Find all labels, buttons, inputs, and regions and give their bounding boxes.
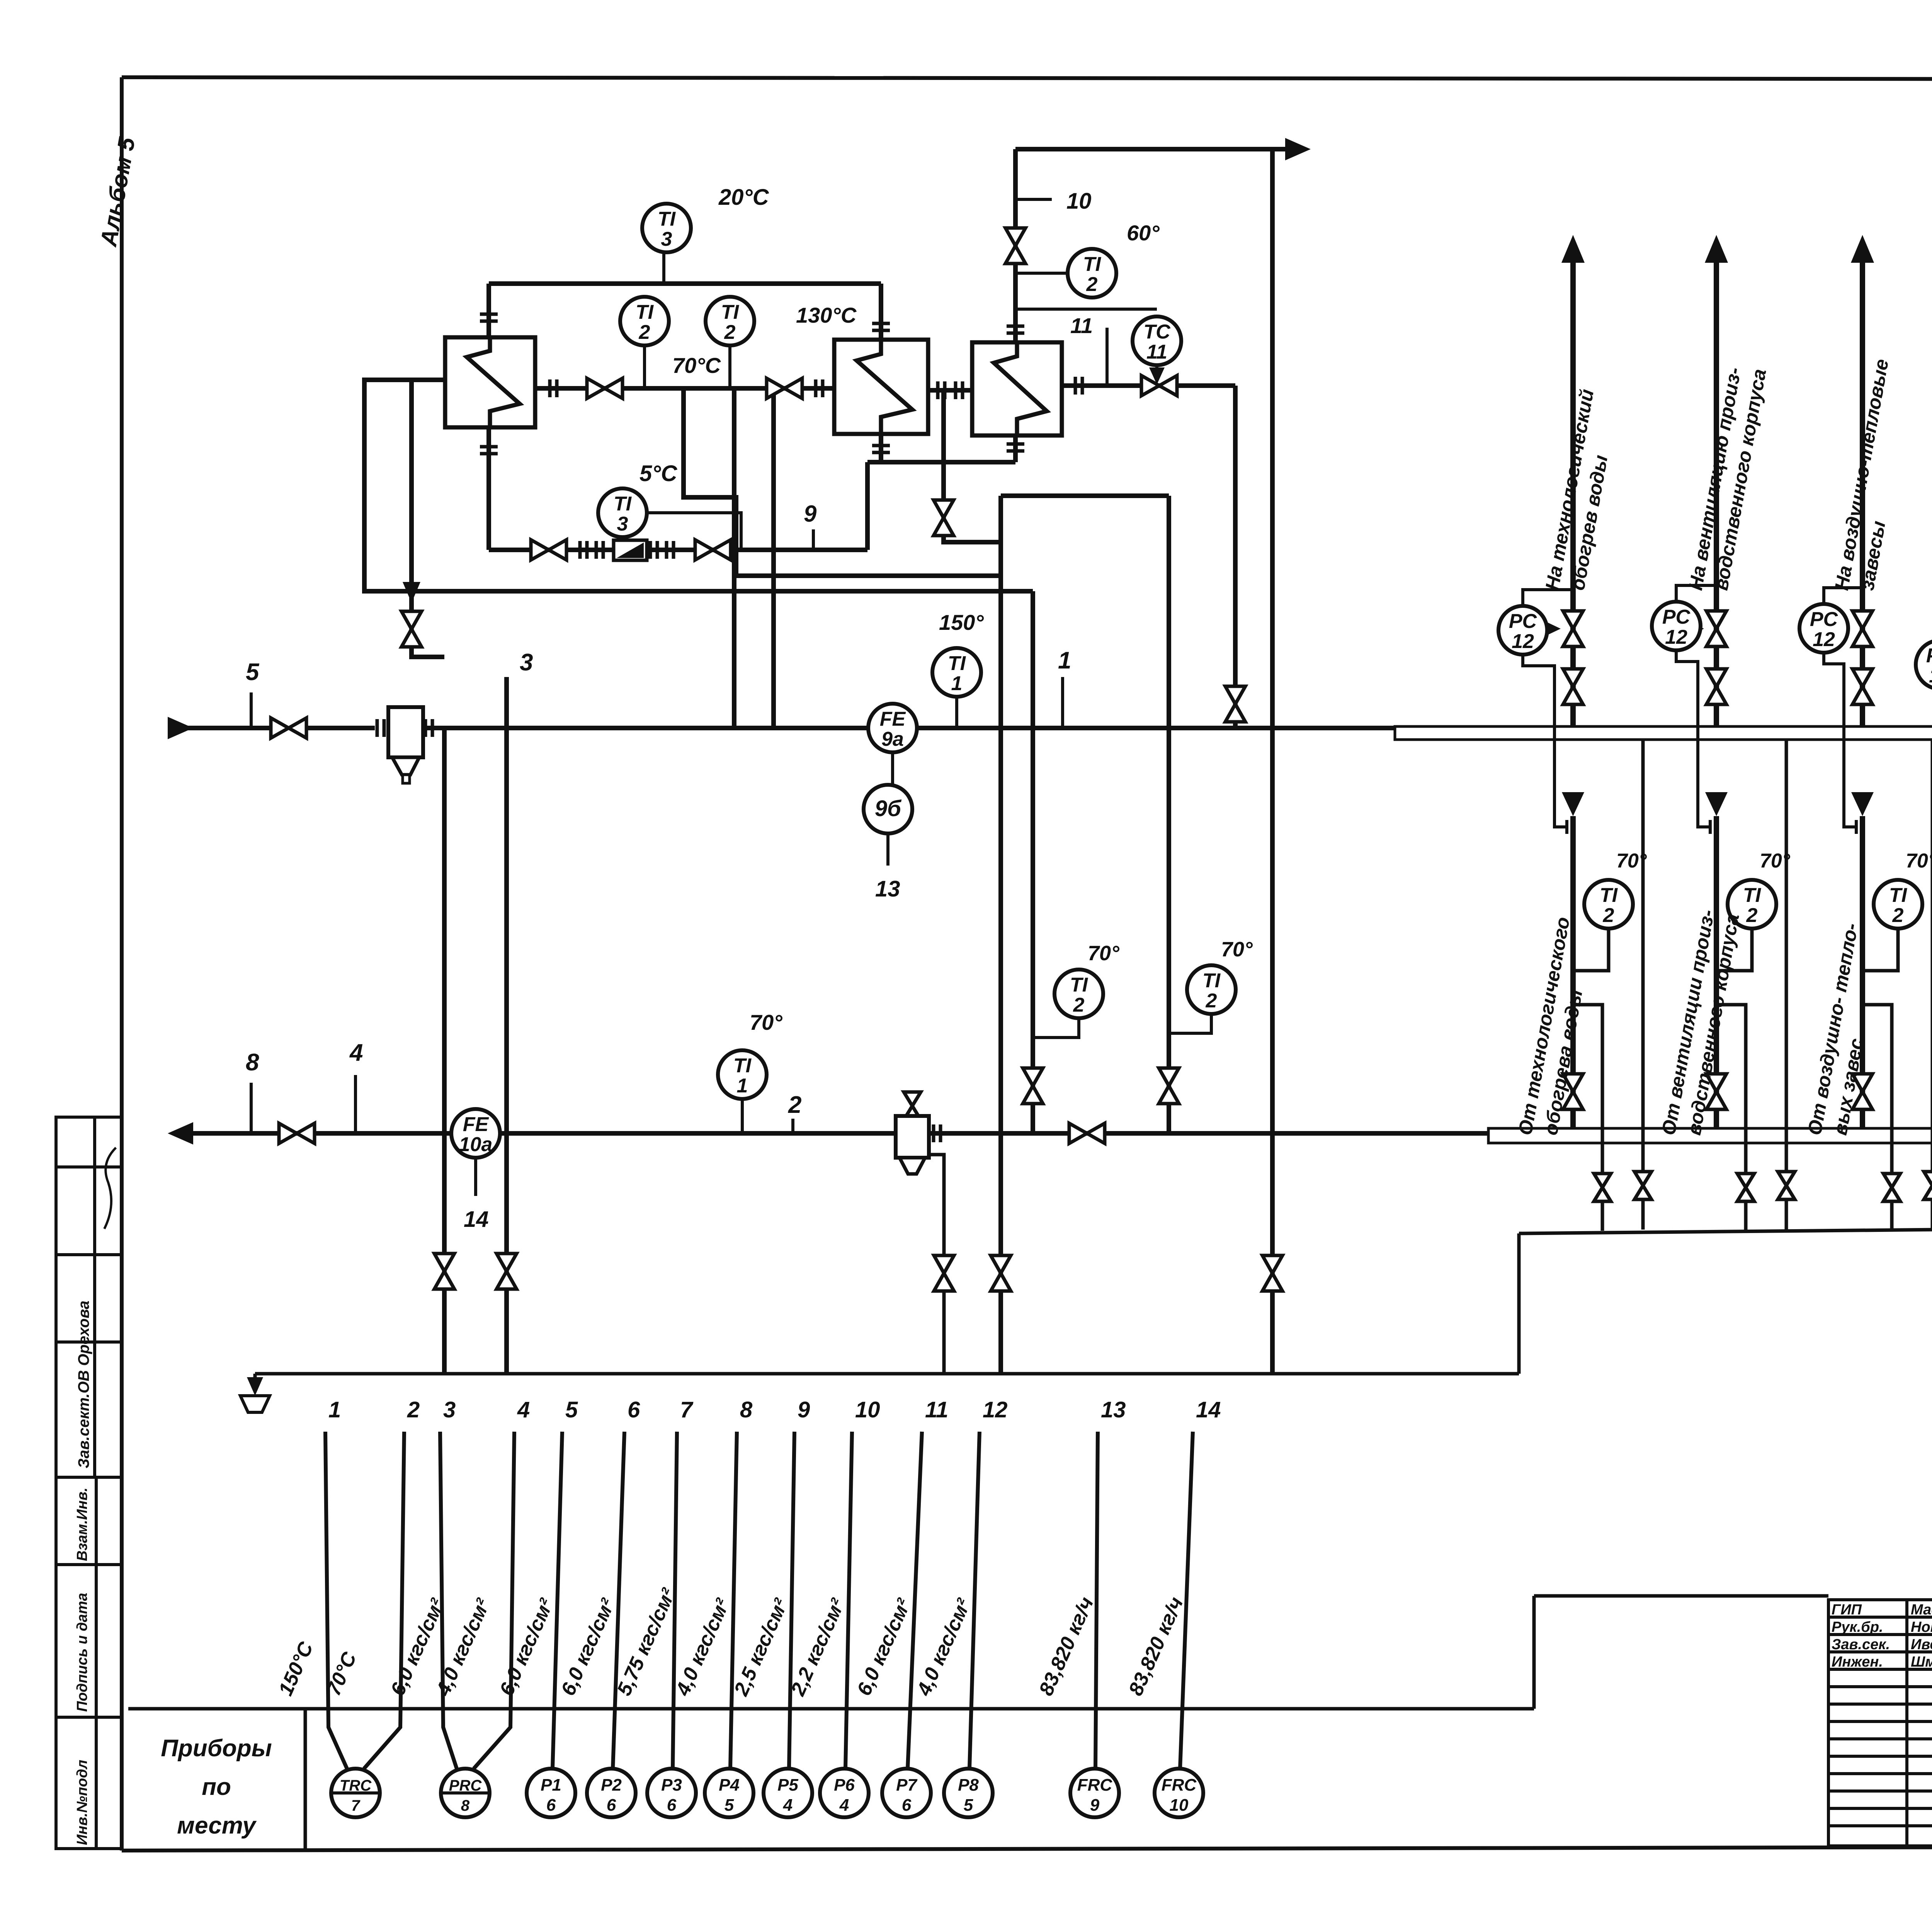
return riser load 3 [1851,792,1874,816]
svg-text:Инжен.: Инжен. [1832,1654,1883,1670]
wire drain v1311 (node 3) [504,677,509,1374]
supply riser load 1 [1570,253,1576,726]
wire [306,726,375,730]
svg-text:Подпись и дата: Подпись и дата [74,1593,90,1712]
svg-text:6: 6 [628,1397,640,1422]
valve on v3293 [1262,1255,1282,1291]
node 9 tick [812,529,815,550]
wire return line [193,1131,1488,1136]
valve on v1311 [497,1254,517,1289]
svg-text:2: 2 [1892,904,1904,927]
wire long vertical v3293 [1270,151,1275,1374]
svg-text:2: 2 [407,1397,420,1422]
instrument FRC10 [1155,1769,1203,1817]
controller PC12 load 1 [1498,606,1547,655]
supply header (thick) [1395,726,1932,740]
9b stem [886,833,889,866]
valve on bypass [531,540,566,560]
svg-text:9а: 9а [881,728,904,750]
return riser drain load 2 [1716,1005,1746,1231]
instrument Р26 [587,1769,636,1817]
wire hot outlet 60deg [1015,147,1295,151]
PC12 impulse hook load 3 [1824,588,1860,604]
svg-text:ТRC: ТRC [340,1777,372,1794]
return riser drain load 3 [1862,1005,1892,1231]
supply riser drain load 1 [1641,740,1645,1230]
valve on v1150 [434,1254,454,1289]
svg-text:6: 6 [667,1796,677,1815]
svg-text:70°: 70° [1906,850,1932,872]
svg-text:12: 12 [1512,630,1534,653]
svg-text:Шмидт.: Шмидт. [1911,1654,1932,1670]
svg-text:2: 2 [1073,994,1085,1016]
supply riser load 2 [1714,253,1719,726]
left stamp table upper [56,1117,122,1477]
valve after HX1 [587,378,622,398]
instrument strip frame [128,1707,1534,1711]
valve on return outlet [279,1123,315,1143]
node 1 tick [1061,677,1064,728]
svg-text:1: 1 [1058,647,1071,674]
svg-text:ТI: ТI [948,652,966,675]
svg-text:Зав.сек.: Зав.сек. [1832,1636,1890,1653]
valve on v2590 [991,1255,1011,1291]
border frame [122,77,1932,80]
svg-text:14: 14 [1196,1397,1221,1422]
manual valve on supply riser load 1 [1563,669,1583,704]
signature table [1828,1600,1932,1846]
wire HX1 return [364,380,1033,591]
valve before HX2 [767,378,802,398]
wire supply line to header [423,726,1395,730]
cold water top line 20deg [489,281,881,286]
thermometer TI1 (150deg supply) [932,648,981,697]
TI2 stem [728,345,731,388]
thermometer TI2 on HX1 return [1054,970,1103,1018]
wire loop down to return [1167,496,1171,1133]
line to TC11 [1015,308,1157,311]
svg-text:Р7: Р7 [896,1776,918,1795]
svg-text:FE: FE [463,1113,489,1136]
svg-text:1: 1 [737,1075,748,1097]
thermometer TI2 (60deg) [1068,249,1116,298]
wire loop [1001,493,1169,498]
wire drain manifold step [1517,1233,1521,1374]
valve on HX2 drain [934,500,954,536]
svg-text:Р6: Р6 [834,1776,855,1795]
PC12 impulse hook load 2 [1676,585,1714,602]
instrument Р36 [647,1769,696,1817]
FE9a link [891,752,894,785]
svg-text:2: 2 [788,1092,801,1118]
valve on HX1 drain [401,611,422,647]
svg-text:ТI: ТI [636,301,654,323]
svg-text:ГИП: ГИП [1832,1602,1862,1618]
svg-text:2: 2 [1746,904,1758,927]
svg-text:20°C: 20°C [718,185,769,210]
svg-text:11: 11 [1146,341,1167,363]
svg-text:60°: 60° [1127,221,1160,245]
valve on HX3 outlet riser [1005,228,1026,264]
svg-text:10: 10 [1066,189,1092,214]
thermometer TI2 load 1 [1584,880,1633,929]
instrument line 3 [440,1432,457,1769]
TI2 stem [1015,272,1068,275]
svg-text:Приборы: Приборы [161,1735,272,1762]
svg-text:ТI: ТI [658,208,676,230]
svg-text:Р2: Р2 [601,1776,622,1795]
svg-text:8: 8 [246,1049,259,1076]
svg-text:9б: 9б [875,796,902,821]
node 10 tick [1015,198,1052,201]
svg-text:8: 8 [461,1797,470,1814]
svg-text:Р1: Р1 [541,1776,561,1795]
return riser load 1 [1562,792,1584,816]
flange [377,719,384,737]
wire HX1 return drop [1031,591,1035,1133]
svg-text:FE: FE [880,708,906,730]
svg-text:Р3: Р3 [661,1776,682,1795]
instrument Р85 [944,1769,993,1817]
instrument Р64 [820,1769,869,1817]
signature squiggle [104,1148,116,1229]
HX1 bottom riser to bypass [486,427,491,550]
svg-text:РС: РС [1926,645,1932,667]
wire primary feed risers from supply line [732,388,736,728]
control valve TC11 [1141,376,1177,396]
valve above supply line [1225,686,1245,722]
heat exchanger 3 [972,342,1062,435]
node 8 tick [250,1083,253,1133]
svg-text:5°C: 5°C [639,461,677,486]
TC11 arrow to control valve [1155,365,1158,377]
drain funnel [253,1374,257,1385]
instrument line 9 [789,1432,794,1769]
svg-text:70°: 70° [750,1010,782,1034]
svg-text:3: 3 [443,1397,456,1422]
HX3 secondary outlet with control valve [1062,383,1235,388]
thermometer TI2 load 2 [1728,880,1776,929]
TI1 stem [741,1099,744,1133]
valve on strainer2 drain [934,1255,954,1291]
svg-text:9: 9 [798,1397,810,1422]
instrument line 12 [969,1432,980,1769]
svg-text:12: 12 [1929,665,1932,687]
supply riser drain load 3 [1931,740,1932,1230]
node 2 tick [791,1119,794,1133]
svg-text:Р5: Р5 [777,1776,798,1795]
svg-text:Взам.Инв.: Взам.Инв. [74,1488,90,1561]
svg-text:Р8: Р8 [958,1776,979,1795]
svg-text:70°: 70° [1088,942,1119,965]
instrument Р45 [705,1769,753,1817]
wire drain manifold (funnel) [255,1372,1519,1376]
svg-text:ТI: ТI [721,301,740,323]
flow element FE10a [451,1109,500,1158]
instrument line 6 [613,1432,624,1769]
svg-text:Инв.№подл: Инв.№подл [74,1760,90,1845]
PC12 impulse hook load 1 [1523,590,1571,606]
valve on return line [1069,1123,1105,1143]
svg-text:4: 4 [839,1796,849,1815]
TI2 stem [1169,1014,1211,1033]
svg-text:2: 2 [1086,273,1098,296]
svg-text:10а: 10а [459,1133,493,1156]
svg-text:130°C: 130°C [796,303,857,327]
instrument line 13 [1095,1432,1098,1769]
TI1 stem [955,697,958,728]
cold feed line to HX2/HX3 bottoms [867,460,1015,464]
HX2 top riser [879,284,883,340]
svg-text:1: 1 [951,672,963,695]
manual valve on supply riser load 3 [1852,669,1872,704]
instrument line 7 [673,1432,677,1769]
heat exchanger 1 [445,337,535,427]
instrument line 11 [908,1432,922,1769]
node 11 tick [1105,328,1109,384]
thermometer TI3 (20degC) [642,204,691,252]
svg-text:11: 11 [1070,313,1093,338]
svg-text:ТI: ТI [1889,884,1908,907]
svg-text:12: 12 [1665,626,1687,648]
supply inlet arrow (node 5) [168,717,193,739]
svg-text:9: 9 [804,501,817,527]
TI2 stem [643,345,646,388]
wire HX2 drain [944,390,1001,542]
flange [934,1124,940,1142]
HX2-HX3 link [928,388,972,393]
svg-text:ТI: ТI [1070,974,1088,996]
svg-text:5: 5 [246,659,260,685]
node 4 tick [354,1075,357,1133]
svg-text:по: по [202,1774,231,1800]
svg-text:ТI: ТI [1202,970,1221,992]
svg-text:3: 3 [661,228,672,250]
svg-text:Номин: Номин [1911,1619,1932,1635]
wire drain v2590 [998,496,1003,1374]
svg-text:70°: 70° [1221,938,1253,961]
wire riser from bypass [865,462,870,550]
valve on HX1 return drop [1023,1068,1043,1104]
flange [425,719,432,737]
controller PRC8 [441,1769,490,1817]
instrument line 14 [1180,1432,1193,1769]
svg-text:Р4: Р4 [719,1776,740,1795]
instrument line 5 [553,1432,562,1769]
svg-text:3: 3 [617,513,628,535]
instrument line 8 [730,1432,737,1769]
svg-text:2: 2 [639,321,650,344]
thermometer TI2 before HX2 [706,297,754,345]
control valve load 3 [1852,611,1872,646]
svg-text:ТI: ТI [733,1055,752,1077]
svg-text:11: 11 [925,1397,948,1422]
valve on loop drop [1159,1068,1179,1104]
check valve [614,540,647,560]
svg-text:5: 5 [724,1796,734,1815]
return riser load 2 [1705,792,1728,816]
HX1 outlet pipe 70degC [535,386,834,391]
valve on bypass 2 [695,540,731,560]
svg-text:FRC: FRC [1077,1776,1113,1795]
svg-text:ТI: ТI [614,493,632,515]
svg-text:4: 4 [783,1796,793,1815]
svg-text:4: 4 [517,1397,530,1422]
svg-text:месту: месту [177,1812,257,1839]
vent valve on return strainer [904,1092,921,1120]
svg-text:7: 7 [351,1797,361,1814]
left stamp table lower [56,1477,122,1849]
svg-text:8: 8 [740,1397,753,1422]
wire HX1 drain [412,380,444,657]
svg-text:ТI: ТI [1743,884,1762,907]
svg-text:Зав.сект.ОВ Орехова: Зав.сект.ОВ Орехова [75,1301,92,1468]
return riser drain load 1 [1573,1005,1602,1231]
svg-text:РС: РС [1810,608,1838,631]
control valve load 1 [1563,611,1583,646]
strainer on supply line [388,707,423,757]
svg-text:13: 13 [1101,1397,1126,1422]
svg-text:РС: РС [1662,606,1691,628]
supply riser drain load 2 [1785,740,1788,1230]
heat exchanger 2 [834,340,928,434]
instrument 9b [864,785,912,833]
svg-text:12: 12 [983,1397,1008,1422]
svg-text:2: 2 [1603,904,1614,927]
thermometer TI1 (70deg return) [718,1050,767,1099]
thermometer TI2 after HX1 [620,297,669,345]
svg-text:12: 12 [1813,628,1835,651]
controller PC12 load 4 [1916,640,1932,689]
svg-text:2: 2 [724,321,736,344]
thermometer TI2 load 3 [1874,880,1922,929]
wire drain v1150 [442,728,447,1374]
svg-text:5: 5 [964,1796,973,1815]
svg-text:9: 9 [1090,1796,1100,1815]
wire strainer2 drain [929,1155,944,1374]
svg-text:13: 13 [875,876,900,902]
FE10a stem [474,1158,477,1196]
svg-text:4: 4 [349,1039,363,1066]
svg-text:6: 6 [607,1796,616,1815]
controller TRC7 [331,1769,380,1817]
node 5 tick [250,692,253,728]
instrument line 2 [364,1432,404,1769]
svg-text:РС: РС [1509,610,1537,633]
controller TC11 [1133,316,1181,365]
instrument line 10 [845,1432,852,1769]
svg-text:70°C: 70°C [672,353,721,378]
svg-text:3: 3 [520,649,533,676]
PC12 impulse to return riser load 1 [1523,655,1567,827]
TI2 stem [1033,1018,1079,1038]
wire supply line [168,726,270,730]
svg-text:Ивельская: Ивельская [1911,1636,1932,1653]
supply riser load 3 [1860,253,1865,726]
svg-text:2: 2 [1206,990,1217,1012]
return outlet arrow (node 8) [168,1122,193,1145]
svg-text:ТС: ТС [1143,321,1171,343]
HX2 bottom riser [879,434,883,462]
HX1 top riser [486,284,491,337]
instrument Р16 [527,1769,575,1817]
wire lower drain manifold [1519,1224,1932,1233]
svg-text:ТI: ТI [1083,253,1102,276]
svg-text:6: 6 [902,1796,912,1815]
svg-text:14: 14 [464,1207,489,1232]
pribory po mestu box [304,1709,307,1851]
make-up water bypass 5degC [489,548,867,552]
svg-text:Маслеников: Маслеников [1911,1602,1932,1618]
control valve load 2 [1706,611,1726,646]
svg-text:10: 10 [1170,1796,1189,1815]
controller PC12 load 2 [1652,602,1701,650]
svg-text:РRC: РRC [449,1777,482,1794]
instrument Р76 [882,1769,931,1817]
svg-text:7: 7 [680,1397,694,1422]
PC12 impulse to return riser load 2 [1676,650,1710,827]
valve on return riser load 2 [1706,1074,1726,1109]
svg-text:FRC: FRC [1162,1776,1197,1795]
stepped drain from primary pipe to node 9 line [684,388,1001,576]
instrument line 4 [474,1432,514,1769]
HX3 bottom riser [1013,435,1018,462]
svg-text:5: 5 [565,1397,578,1422]
thermometer TI2 on loop [1187,965,1236,1014]
valve on return riser load 1 [1563,1074,1583,1109]
PC12 impulse to return riser load 3 [1824,653,1856,827]
manual valve on supply riser load 2 [1706,669,1726,704]
flow element FE9a [868,704,917,752]
instrument line 1 [325,1432,347,1769]
valve on supply inlet [271,718,306,738]
svg-text:10: 10 [855,1397,880,1422]
svg-text:Рук.бр.: Рук.бр. [1832,1619,1883,1635]
svg-text:ТI: ТI [1600,884,1618,907]
valve on return riser load 3 [1852,1074,1872,1109]
svg-text:150°: 150° [939,610,984,634]
instrument Р54 [764,1769,812,1817]
TI3 stem [647,513,741,550]
return header (thick) [1488,1128,1932,1143]
TI3 stem [662,252,665,284]
thermometer TI3 (5degC) [598,488,647,537]
wire down to supply header [1233,386,1238,728]
svg-text:1: 1 [328,1397,341,1422]
controller PC12 load 3 [1799,604,1848,653]
instrument FRC9 [1070,1769,1119,1817]
svg-text:6: 6 [546,1796,556,1815]
HX3 top riser (60deg outlet) [1013,149,1018,342]
